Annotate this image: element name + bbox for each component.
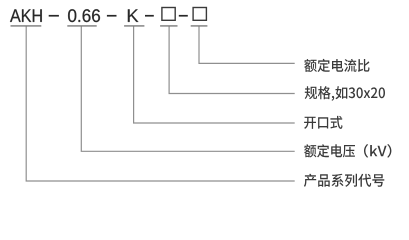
underline under box 1 [160,25,177,26]
leader wire from 0.66 down-right to label 4 [81,26,294,151]
dash separator 1 [49,15,59,17]
underline under box 2 [191,25,208,26]
leader wire from box 2 down-right to label 1 [199,26,295,63]
label 1: rated current ratio (额定电流比) [304,59,369,72]
leader wire from K down-right to label 3 [134,26,295,123]
dash separator 3 [145,15,154,17]
underline under AKH [11,25,42,26]
label 4: rated voltage kV (额定电压（kV）) [304,144,391,158]
text K (open-type code) [128,9,138,22]
underline under 0.66 [67,25,96,26]
placeholder box 2 (current ratio) [193,8,206,21]
text AKH (product code prefix) [10,9,42,22]
placeholder box 1 (specification) [162,8,175,21]
underline under K [124,25,144,26]
label 2: specification e.g. 30x20 (规格,如30x20) [305,86,385,101]
dash separator 4 [179,15,188,17]
label 5: product series code (产品系列代号) [304,174,384,187]
label 3: open type (开口式) [304,116,342,129]
text 0.66 (rated voltage value) [68,9,100,22]
leader wire from AKH down-right to label 5 [26,26,295,181]
leader wire from box 1 down-right to label 2 [169,26,295,93]
dash separator 2 [107,15,117,17]
